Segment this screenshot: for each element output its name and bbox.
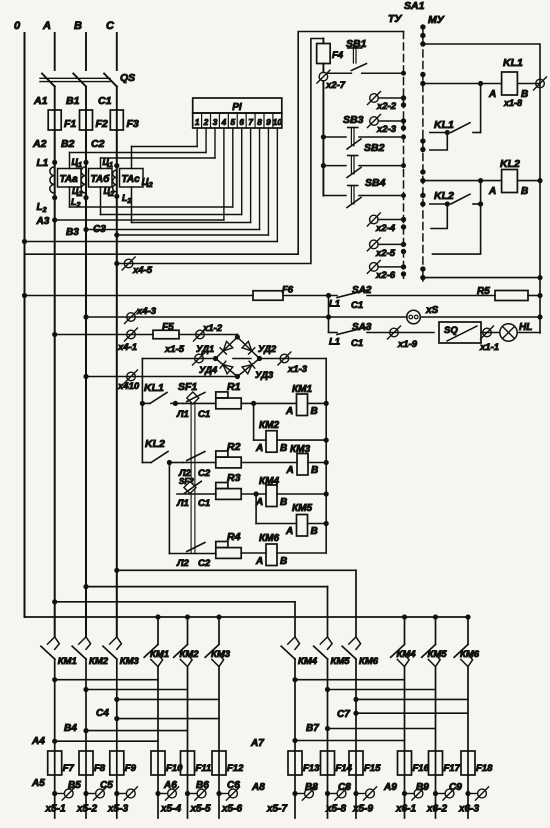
svg-text:x5-4: x5-4 <box>160 804 181 815</box>
svg-text:F5: F5 <box>162 322 174 333</box>
svg-text:KL1: KL1 <box>144 382 164 394</box>
svg-text:R3: R3 <box>227 472 241 484</box>
svg-text:КМ4: КМ4 <box>298 656 318 667</box>
svg-text:C1: C1 <box>98 95 112 107</box>
svg-text:x1-2: x1-2 <box>202 323 223 334</box>
svg-text:B: B <box>521 89 528 100</box>
svg-text:x5-3: x5-3 <box>107 804 128 815</box>
svg-text:x2-3: x2-3 <box>376 124 397 135</box>
svg-text:КМ3: КМ3 <box>211 649 231 660</box>
svg-text:B: B <box>311 465 318 476</box>
svg-text:C8: C8 <box>338 782 351 793</box>
svg-text:КМ6: КМ6 <box>359 656 379 667</box>
svg-text:КМ5: КМ5 <box>292 503 312 514</box>
svg-text:КМ3: КМ3 <box>120 656 140 667</box>
svg-text:A5: A5 <box>31 778 45 789</box>
svg-text:x1-3: x1-3 <box>287 364 308 375</box>
svg-text:F9: F9 <box>125 763 137 774</box>
svg-text:F14: F14 <box>336 763 353 774</box>
svg-text:SA1: SA1 <box>404 0 425 12</box>
svg-text:C1: C1 <box>351 300 363 311</box>
svg-text:КМ5: КМ5 <box>428 649 448 660</box>
svg-text:KL1: KL1 <box>434 119 454 131</box>
svg-text:x410: x410 <box>117 381 140 392</box>
svg-text:L1: L1 <box>37 158 49 169</box>
svg-text:R1: R1 <box>227 381 241 393</box>
svg-text:B: B <box>311 406 318 417</box>
svg-text:x2-6: x2-6 <box>375 270 396 281</box>
svg-text:Л2: Л2 <box>176 558 190 569</box>
svg-text:x2-2: x2-2 <box>376 101 397 112</box>
svg-text:x5-5: x5-5 <box>190 804 211 815</box>
svg-text:KL2: KL2 <box>434 190 454 202</box>
svg-text:B: B <box>280 497 287 508</box>
svg-text:С2: С2 <box>198 468 211 479</box>
svg-text:Л1: Л1 <box>176 498 189 509</box>
svg-text:x1-9: x1-9 <box>397 339 418 350</box>
svg-text:x6-1: x6-1 <box>395 804 416 815</box>
svg-text:B8: B8 <box>305 782 318 793</box>
svg-text:TAб: TAб <box>91 173 111 185</box>
svg-text:A: A <box>255 443 263 454</box>
svg-text:A1: A1 <box>33 95 48 107</box>
svg-text:F3: F3 <box>127 118 139 130</box>
svg-text:МУ: МУ <box>428 14 445 26</box>
svg-text:КМ1: КМ1 <box>58 656 77 667</box>
svg-text:КМ2: КМ2 <box>89 656 109 667</box>
svg-text:КМ5: КМ5 <box>331 656 351 667</box>
svg-text:B5: B5 <box>68 780 81 791</box>
svg-text:KL2: KL2 <box>145 438 165 450</box>
svg-text:x5-8: x5-8 <box>325 804 346 815</box>
svg-text:УД2: УД2 <box>258 344 277 355</box>
svg-text:F8: F8 <box>94 763 106 774</box>
svg-text:F11: F11 <box>196 763 212 774</box>
svg-text:1: 1 <box>195 118 200 127</box>
svg-text:L1: L1 <box>329 299 340 310</box>
svg-text:4: 4 <box>221 118 227 127</box>
svg-text:Л1: Л1 <box>176 409 189 420</box>
svg-text:x6-3: x6-3 <box>458 804 479 815</box>
svg-text:x6-2: x6-2 <box>426 804 447 815</box>
svg-text:КМ2: КМ2 <box>259 420 279 431</box>
svg-text:F16: F16 <box>413 763 430 774</box>
svg-text:F7: F7 <box>63 763 75 774</box>
svg-text:x2-5: x2-5 <box>375 248 396 259</box>
svg-text:C: C <box>106 20 115 32</box>
svg-text:6: 6 <box>239 118 244 127</box>
svg-text:A: A <box>285 526 293 537</box>
svg-text:x5-9: x5-9 <box>352 804 373 815</box>
svg-text:TAa: TAa <box>60 174 79 185</box>
svg-text:C2: C2 <box>91 138 105 150</box>
svg-text:B: B <box>521 186 528 197</box>
svg-text:SB3: SB3 <box>343 114 364 126</box>
svg-text:A: A <box>255 556 263 567</box>
svg-text:x2-4: x2-4 <box>375 223 396 234</box>
svg-text:A: A <box>488 186 496 197</box>
svg-text:A7: A7 <box>250 738 264 749</box>
svg-text:ТУ: ТУ <box>388 13 402 25</box>
svg-text:L1: L1 <box>329 337 340 348</box>
svg-text:A4: A4 <box>31 736 45 747</box>
svg-text:10: 10 <box>273 118 283 127</box>
svg-text:F18: F18 <box>476 763 493 774</box>
svg-text:F17: F17 <box>444 763 461 774</box>
svg-text:KL2: KL2 <box>500 158 520 170</box>
svg-text:B2: B2 <box>61 138 75 150</box>
svg-text:R4: R4 <box>227 531 241 543</box>
svg-text:SB4: SB4 <box>365 177 386 189</box>
svg-text:7: 7 <box>248 118 253 127</box>
svg-text:2: 2 <box>203 118 209 127</box>
svg-text:x4-5: x4-5 <box>132 265 153 276</box>
svg-text:B4: B4 <box>64 723 77 734</box>
svg-text:A: A <box>286 465 294 476</box>
svg-text:B1: B1 <box>66 95 80 107</box>
svg-text:KL1: KL1 <box>503 57 523 69</box>
svg-text:R2: R2 <box>227 441 241 453</box>
svg-text:x5-2: x5-2 <box>76 804 97 815</box>
svg-text:x4-1: x4-1 <box>117 342 137 353</box>
svg-text:x5-7: x5-7 <box>266 804 287 815</box>
svg-text:F4: F4 <box>332 50 344 61</box>
svg-text:С1: С1 <box>198 409 210 420</box>
svg-text:УД3: УД3 <box>255 370 274 381</box>
svg-text:xS: xS <box>425 305 439 316</box>
svg-text:A: A <box>42 20 51 32</box>
svg-text:x1-5: x1-5 <box>164 344 185 355</box>
svg-text:PI: PI <box>232 102 242 113</box>
svg-text:C4: C4 <box>96 708 109 719</box>
svg-text:С1: С1 <box>198 498 210 509</box>
svg-text:F1: F1 <box>64 118 76 130</box>
svg-text:F13: F13 <box>303 763 320 774</box>
svg-text:F15: F15 <box>364 763 381 774</box>
svg-text:C1: C1 <box>351 338 363 349</box>
svg-text:x5-6: x5-6 <box>221 804 242 815</box>
svg-text:УД4: УД4 <box>199 365 218 376</box>
svg-text:SB2: SB2 <box>364 142 385 154</box>
svg-text:x1-1: x1-1 <box>479 342 499 353</box>
svg-text:x5-1: x5-1 <box>45 804 66 815</box>
svg-text:F2: F2 <box>96 118 108 130</box>
svg-text:x4-3: x4-3 <box>136 306 157 317</box>
svg-text:A8: A8 <box>251 782 265 793</box>
svg-text:5: 5 <box>231 118 236 127</box>
svg-text:КМ6: КМ6 <box>259 533 279 544</box>
svg-text:A9: A9 <box>383 782 397 793</box>
svg-text:C9: C9 <box>449 782 462 793</box>
svg-text:x1-8: x1-8 <box>503 98 522 108</box>
svg-text:F12: F12 <box>227 763 244 774</box>
svg-text:HL: HL <box>519 322 532 333</box>
svg-text:A3: A3 <box>36 216 50 227</box>
svg-text:A: A <box>285 406 293 417</box>
svg-text:SF1: SF1 <box>178 381 197 393</box>
svg-text:SQ: SQ <box>444 325 458 336</box>
svg-text:C7: C7 <box>337 709 350 720</box>
svg-text:B: B <box>74 20 82 32</box>
svg-text:B3: B3 <box>66 227 79 238</box>
svg-text:B: B <box>280 556 287 567</box>
svg-text:КМ6: КМ6 <box>460 649 480 660</box>
svg-text:A: A <box>488 89 496 100</box>
svg-text:3: 3 <box>213 118 218 127</box>
svg-text:B7: B7 <box>306 723 319 734</box>
svg-text:C5: C5 <box>100 780 113 791</box>
svg-text:0: 0 <box>14 20 21 32</box>
svg-text:B: B <box>311 526 318 537</box>
svg-text:С2: С2 <box>198 558 211 569</box>
svg-text:B: B <box>280 443 287 454</box>
svg-text:R5: R5 <box>477 286 490 297</box>
svg-text:9: 9 <box>266 118 271 127</box>
svg-text:B9: B9 <box>416 782 429 793</box>
svg-text:КМ2: КМ2 <box>180 649 200 660</box>
svg-text:F6: F6 <box>282 285 294 296</box>
svg-text:КМ4: КМ4 <box>397 649 417 660</box>
svg-text:A2: A2 <box>32 138 47 150</box>
svg-text:8: 8 <box>257 118 262 127</box>
svg-text:TAc: TAc <box>122 174 141 185</box>
svg-text:КМ1: КМ1 <box>150 649 169 660</box>
svg-text:x2-7: x2-7 <box>325 80 346 91</box>
svg-text:QS: QS <box>120 72 135 84</box>
